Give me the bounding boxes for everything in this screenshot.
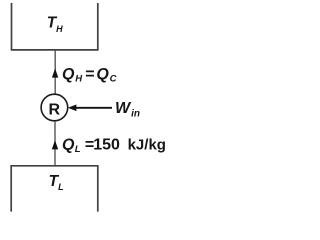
wire W_in (horizontal) — [76, 107, 113, 109]
wire Q_L (refrigerator to cold reservoir) — [54, 121, 56, 165]
hot reservoir T_H box — [12, 3, 98, 50]
svg-text:R: R — [49, 101, 61, 118]
arrowhead Q_H (up) — [52, 68, 58, 77]
arrowhead W_in (left, into circle) — [68, 105, 77, 112]
cold reservoir T_L box — [11, 166, 98, 212]
arrowhead Q_L (up) — [52, 140, 58, 149]
wire Q_H (reservoir to refrigerator) — [54, 51, 56, 94]
refrigerator circle R — [41, 94, 68, 121]
svg-text:QH=QC: QH=QC — [62, 66, 117, 85]
